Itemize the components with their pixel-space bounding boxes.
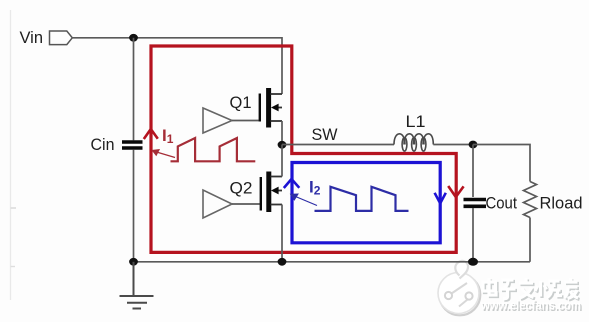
arrow I1 up (on left edge of red loop) (144, 129, 158, 139)
wire: Q1 source down to SW node (281, 121, 283, 145)
watermark CJK text 电子发烧友 (drawn strokes, embossed) (483, 278, 580, 300)
node: Vin/Cin junction (129, 34, 138, 42)
current loop I1 (red) (151, 46, 456, 252)
ground symbol (120, 262, 154, 309)
port Vin connector (50, 31, 73, 45)
arrow I1 down (on right edge of red loop) (448, 186, 463, 197)
ground rail wire (134, 261, 531, 263)
svg-text:SW: SW (312, 125, 338, 144)
wire: output node to Rload top (473, 145, 530, 182)
resistor Rload (zigzag) (524, 182, 537, 218)
node: ground rail left junction (129, 258, 138, 266)
watermark logo (elecfans) (438, 261, 480, 315)
svg-text:Vin: Vin (20, 28, 44, 47)
node: output top junction (469, 141, 478, 149)
transistor Q1 (MOSFET) (260, 88, 282, 128)
svg-text:www.elecfans.com: www.elecfans.com (480, 298, 581, 313)
node: ground rail Cout junction (468, 258, 478, 266)
svg-text:Rload: Rload (540, 194, 583, 213)
wire: driver U2 to Q2 gate (232, 203, 260, 205)
capacitor Cout plates (464, 198, 487, 202)
I1 current waveform (red) (171, 138, 256, 161)
transistor Q2 (MOSFET) (261, 172, 282, 213)
gate driver U1 (triangle) (203, 108, 232, 133)
svg-text:Cout: Cout (486, 194, 518, 213)
faint left scan edge line (11, 10, 17, 300)
wire: Q2 source down to ground rail (281, 205, 283, 262)
wire: output node down to Cout (472, 145, 474, 198)
current loop I2 (blue) (292, 163, 440, 243)
I2 current waveform (blue) (315, 187, 409, 211)
arrow I2 up (on left edge of blue loop) (284, 179, 300, 188)
arrow I2 down (on right edge of blue loop) (435, 193, 446, 204)
wire: Rload to ground rail (529, 218, 531, 262)
svg-text:Q2: Q2 (230, 179, 253, 198)
wire: Vin to Q1 drain (top rail) (72, 38, 282, 94)
capacitor Cin plates (122, 140, 143, 143)
wire: Cin to ground rail (133, 150, 135, 262)
leader line I1 (waveform to loop) (153, 150, 176, 158)
node: ground rail Q2 junction (278, 258, 287, 266)
svg-text:Q1: Q1 (230, 93, 252, 112)
wire: junction down to Cin (133, 38, 135, 141)
wire: SW node to L1 (282, 144, 394, 146)
wire: driver U1 to Q1 gate (232, 120, 259, 122)
leader line I2 (waveform to loop) (291, 194, 317, 205)
wire: L1 to output node (433, 144, 473, 146)
node SW junction (278, 141, 287, 149)
wire: SW node down to Q2 drain (281, 145, 283, 177)
svg-text:Cin: Cin (91, 135, 115, 154)
inductor L1 (394, 134, 433, 151)
gate driver U2 (triangle) (203, 190, 232, 218)
wire: Cout to ground rail (472, 208, 474, 262)
svg-text:L1: L1 (406, 112, 426, 131)
